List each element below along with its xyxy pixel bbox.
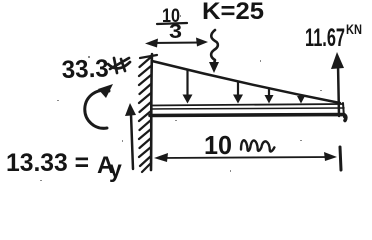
load arrow 3 — [268, 89, 270, 97]
arrowhead 10/3 left — [145, 39, 158, 48]
arrowhead Ay — [125, 103, 136, 116]
beam right end cap — [343, 103, 344, 117]
svg-text:3: 3 — [169, 21, 182, 43]
load arrow 1 — [186, 70, 188, 97]
reaction arrow Ay (upward) — [131, 114, 133, 169]
arrowhead 10m left — [154, 153, 168, 162]
10/3 fraction bar — [157, 23, 187, 24]
wall (fixed support line) — [151, 54, 152, 170]
load arrow 2 — [237, 82, 239, 97]
svg-text:11.67: 11.67 — [305, 24, 345, 52]
reaction arrow B (right, upward) — [338, 64, 339, 116]
svg-text:13.33 =: 13.33 = — [6, 149, 89, 177]
beam top line — [151, 104, 343, 106]
bottom dimension line 10m — [158, 157, 333, 158]
svg-text:KN: KN — [346, 21, 362, 37]
arrowhead load 2 — [233, 95, 243, 104]
distributed load top line (triangle hypotenuse) — [152, 61, 340, 103]
arrowhead load 3 — [265, 95, 274, 104]
moment arc (33.3) — [85, 90, 109, 128]
resultant squiggle arrow — [211, 30, 218, 64]
arrowhead reaction B — [331, 52, 344, 69]
arrowhead load 1 — [183, 95, 193, 104]
svg-text:y: y — [109, 156, 122, 182]
arrowhead squiggle — [209, 62, 219, 73]
beam bottom thick line — [150, 115, 346, 121]
handwritten m of 10m — [241, 140, 274, 151]
svg-text:10: 10 — [204, 130, 232, 160]
beam second line — [151, 108, 344, 109]
svg-text:K=25: K=25 — [202, 0, 264, 25]
arrowhead 10m right — [324, 152, 337, 161]
right dimension tick — [340, 147, 341, 170]
arrowhead moment — [98, 84, 113, 98]
arrowhead load 4 — [297, 96, 305, 104]
load arrow 4 — [300, 96, 302, 99]
svg-text:33.3: 33.3 — [61, 54, 109, 84]
10/3 dimension arrow — [150, 42, 203, 45]
wall hatching — [139, 57, 151, 172]
wall top stub — [140, 55, 157, 58]
strikethrough scribble after 33.3 — [108, 58, 130, 73]
scan speckles — [40, 15, 322, 181]
arrowhead 10/3 right — [196, 38, 208, 47]
